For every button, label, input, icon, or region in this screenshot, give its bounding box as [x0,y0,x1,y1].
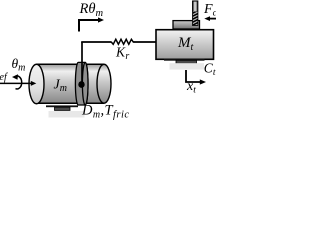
pulley ring on shaft [75,62,88,105]
arrow Fc cutting force [204,16,216,21]
wire vertical from drive corner to pulley hub [81,42,83,82]
rotation arrow theta_m [16,76,22,89]
mass Mt block [156,30,214,60]
svg-text:ref: ref [0,72,8,83]
motor left end cap [29,64,44,104]
svg-text:Rθm: Rθm [79,1,104,19]
wire horizontal from corner to spring [81,41,111,43]
motor base strip [46,105,78,107]
svg-text:Fc: Fc [203,2,216,19]
wire spring to mass [134,41,157,43]
tool flutes hatch [190,9,201,30]
svg-text:Dm,Tfric: Dm,Tfric [81,103,130,121]
workpiece block on table [173,21,200,29]
hub node on pulley [78,81,84,88]
arrow R·theta_m displacement [79,17,104,31]
tool shank [193,1,198,25]
wire vertical over pulley ring [81,62,83,83]
shaft input arrow [0,81,36,86]
spring Kr zigzag [111,39,134,44]
svg-text:Ct: Ct [204,60,216,78]
motor cylinder body Jm [37,64,105,103]
machine bed plate [170,63,205,69]
motor base block [55,107,71,110]
svg-text:θm: θm [12,56,26,74]
motor right end cap [97,64,111,103]
svg-text:Kr: Kr [115,45,129,63]
guideway bar Ct [176,60,197,64]
rail strip under mass [164,59,205,61]
motor bed plate [49,111,85,118]
arrow xt displacement [186,70,206,85]
